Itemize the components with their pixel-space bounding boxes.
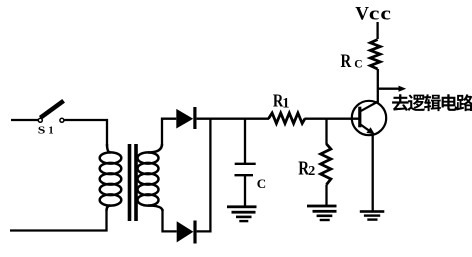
wire capacitor drop bbox=[244, 119, 246, 164]
svg-text:C: C bbox=[354, 59, 362, 71]
svg-text:1: 1 bbox=[282, 96, 289, 112]
wire top-left input bbox=[11, 119, 38, 121]
wire capacitor to ground bbox=[244, 175, 246, 206]
transistor Q1 collector stroke bbox=[361, 102, 379, 112]
label text char 逻 bbox=[408, 95, 425, 112]
transformer T1 primary winding bbox=[107, 144, 111, 153]
wire secondary top to diode D1 bbox=[162, 119, 176, 146]
svg-text:V: V bbox=[355, 4, 369, 25]
wire D2 cathode to riser bbox=[197, 119, 211, 232]
transistor Q1 emitter stroke bbox=[361, 125, 372, 133]
diode D1 bbox=[176, 109, 193, 129]
svg-text:c: c bbox=[380, 3, 391, 24]
transistor Q1 base bar bbox=[358, 107, 361, 128]
resistor R2 bbox=[321, 144, 331, 185]
wire secondary bottom to diode D2 bbox=[163, 209, 177, 231]
svg-text:2: 2 bbox=[308, 164, 315, 179]
label text char 路 bbox=[456, 94, 472, 111]
transistor Q1 body circle bbox=[352, 101, 386, 135]
svg-text:1: 1 bbox=[48, 125, 53, 136]
wire Vcc to Rc bbox=[376, 22, 378, 39]
transformer T1 secondary winding bbox=[148, 144, 162, 153]
label text char 电 bbox=[442, 94, 458, 111]
svg-text:C: C bbox=[257, 176, 266, 191]
capacitor C top plate bbox=[235, 163, 256, 165]
wire R1 to transistor base bbox=[305, 118, 360, 120]
wire main output node bbox=[197, 118, 269, 120]
resistor Rc bbox=[370, 40, 380, 70]
label text char 去 bbox=[392, 94, 409, 111]
resistor R1 bbox=[269, 113, 306, 123]
wire R2 drop bbox=[325, 119, 327, 145]
wire arrow to logic circuit bbox=[378, 88, 400, 90]
wire R2 to ground bbox=[325, 185, 327, 206]
ground under emitter bbox=[360, 210, 385, 221]
switch S1 right contact bbox=[60, 118, 64, 122]
label text char 辑 bbox=[424, 94, 441, 111]
ground under capacitor bbox=[227, 205, 257, 222]
label Vcc bbox=[355, 3, 391, 25]
wire collector riser bbox=[377, 69, 379, 103]
wire bottom-left input bbox=[10, 211, 107, 231]
arrowhead to logic circuit bbox=[399, 86, 407, 92]
switch S1 left contact bbox=[38, 118, 42, 122]
wire from switch to transformer bbox=[65, 120, 108, 146]
svg-text:c: c bbox=[369, 3, 380, 24]
transistor Q1 emitter arrowhead bbox=[366, 127, 374, 134]
transformer T1 core bbox=[128, 144, 132, 221]
svg-text:R: R bbox=[341, 50, 352, 71]
ground under R2 bbox=[307, 205, 337, 222]
capacitor C bottom plate bbox=[235, 174, 254, 176]
diode D2 bbox=[177, 221, 194, 242]
switch S1 lever bbox=[40, 101, 63, 118]
wire emitter to ground bbox=[372, 135, 374, 212]
svg-text:S: S bbox=[38, 124, 46, 136]
